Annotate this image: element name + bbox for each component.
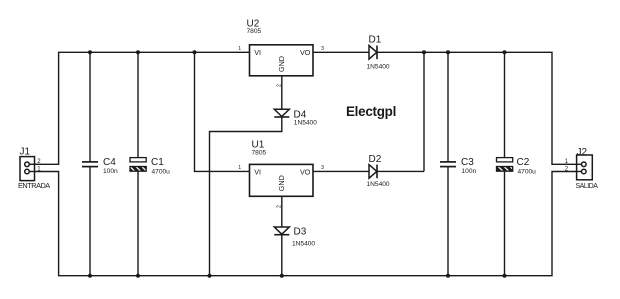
- capacitor C2: [497, 157, 537, 175]
- svg-text:VI: VI: [254, 48, 261, 57]
- diode D2: [367, 154, 390, 188]
- wire C3 top branch: [447, 52, 449, 162]
- svg-text:3: 3: [321, 165, 324, 171]
- wire C2 top branch: [504, 52, 506, 157]
- wire C2 bottom branch: [504, 171, 506, 276]
- wire D2 cathode up to top rail junction: [423, 52, 425, 171]
- svg-text:D1: D1: [369, 35, 382, 46]
- wire D1 cathode along top right rail down to J2 pin1: [377, 52, 577, 164]
- wire U2 VO to D1 anode: [313, 51, 369, 53]
- svg-text:C3: C3: [461, 157, 474, 168]
- svg-text:1N5400: 1N5400: [294, 120, 317, 127]
- wire U1 VO to D2 anode: [313, 170, 369, 172]
- wire D3 cathode down to bottom rail: [281, 235, 283, 276]
- wire U1 GND pin down to D3: [281, 196, 283, 227]
- svg-text:VO: VO: [300, 167, 311, 176]
- svg-text:D2: D2: [369, 154, 382, 165]
- junction top rail at C4: [88, 50, 92, 54]
- junction bottom rail at D3: [280, 274, 284, 278]
- svg-text:2: 2: [276, 205, 282, 208]
- junction bottom rail at C2: [503, 274, 507, 278]
- diode D1: [367, 35, 390, 71]
- wire top rail tap down to U1 VI: [195, 52, 250, 171]
- svg-text:GND: GND: [277, 56, 286, 72]
- capacitor C4: [82, 157, 118, 175]
- svg-text:ENTRADA: ENTRADA: [18, 181, 50, 190]
- wire C1 bottom branch: [137, 171, 139, 276]
- wire C1 top branch: [137, 52, 139, 157]
- svg-text:3: 3: [321, 46, 324, 52]
- wire C4 bottom branch: [89, 167, 91, 276]
- svg-text:J1: J1: [20, 147, 31, 158]
- svg-text:2: 2: [276, 84, 282, 87]
- diode D3: [274, 226, 315, 247]
- junction top rail at U1 feed: [193, 50, 197, 54]
- svg-text:D3: D3: [294, 226, 307, 237]
- svg-text:1: 1: [238, 46, 241, 52]
- svg-text:VO: VO: [300, 48, 311, 57]
- wire C3 bottom branch: [447, 167, 449, 276]
- svg-text:7805: 7805: [247, 28, 262, 35]
- junction bottom rail at C4: [88, 274, 92, 278]
- svg-text:4700u: 4700u: [152, 169, 171, 176]
- svg-text:7805: 7805: [252, 149, 267, 156]
- junction bottom rail at C3: [446, 274, 450, 278]
- capacitor C3: [440, 157, 477, 175]
- junction bottom rail at C1: [136, 274, 140, 278]
- svg-text:100n: 100n: [462, 168, 477, 175]
- svg-text:SALIDA: SALIDA: [576, 183, 599, 190]
- wire D4 cathode left and down to bottom rail: [210, 117, 282, 276]
- capacitor C1: [130, 157, 170, 175]
- op-amp U2 (7805 regulator): [238, 18, 324, 87]
- svg-text:1: 1: [238, 165, 241, 171]
- wire D2 cathode horizontal: [377, 170, 424, 172]
- svg-text:GND: GND: [277, 175, 286, 191]
- wire U2 GND pin down to D4: [281, 76, 283, 109]
- svg-text:Electgpl: Electgpl: [346, 104, 396, 119]
- wire top rail left from J1 pin2 up and right to U2 VI: [35, 52, 250, 164]
- junction top rail at C2: [503, 50, 507, 54]
- wire C4 top branch: [89, 52, 91, 162]
- connector J1: [18, 147, 50, 191]
- junction bottom rail at D4 return: [208, 274, 212, 278]
- svg-text:1N5400: 1N5400: [367, 63, 390, 70]
- svg-text:4700u: 4700u: [518, 168, 537, 175]
- svg-text:100n: 100n: [103, 168, 118, 175]
- op-amp U1 (7805 regulator): [238, 140, 324, 209]
- wire J1 pin1 to bottom rail to J2 pin2: [35, 172, 577, 276]
- svg-text:C2: C2: [517, 157, 530, 168]
- svg-text:C4: C4: [103, 157, 116, 168]
- junction top rail at C1: [136, 50, 140, 54]
- connector J2: [565, 147, 598, 190]
- junction top rail at D2 branch: [422, 50, 426, 54]
- diode D4: [274, 109, 317, 126]
- svg-text:1N5400: 1N5400: [367, 181, 390, 188]
- svg-text:1N5400: 1N5400: [292, 240, 315, 247]
- svg-text:VI: VI: [254, 167, 261, 176]
- junction top rail at C3: [446, 50, 450, 54]
- svg-text:C1: C1: [151, 157, 164, 168]
- svg-text:J2: J2: [577, 147, 588, 158]
